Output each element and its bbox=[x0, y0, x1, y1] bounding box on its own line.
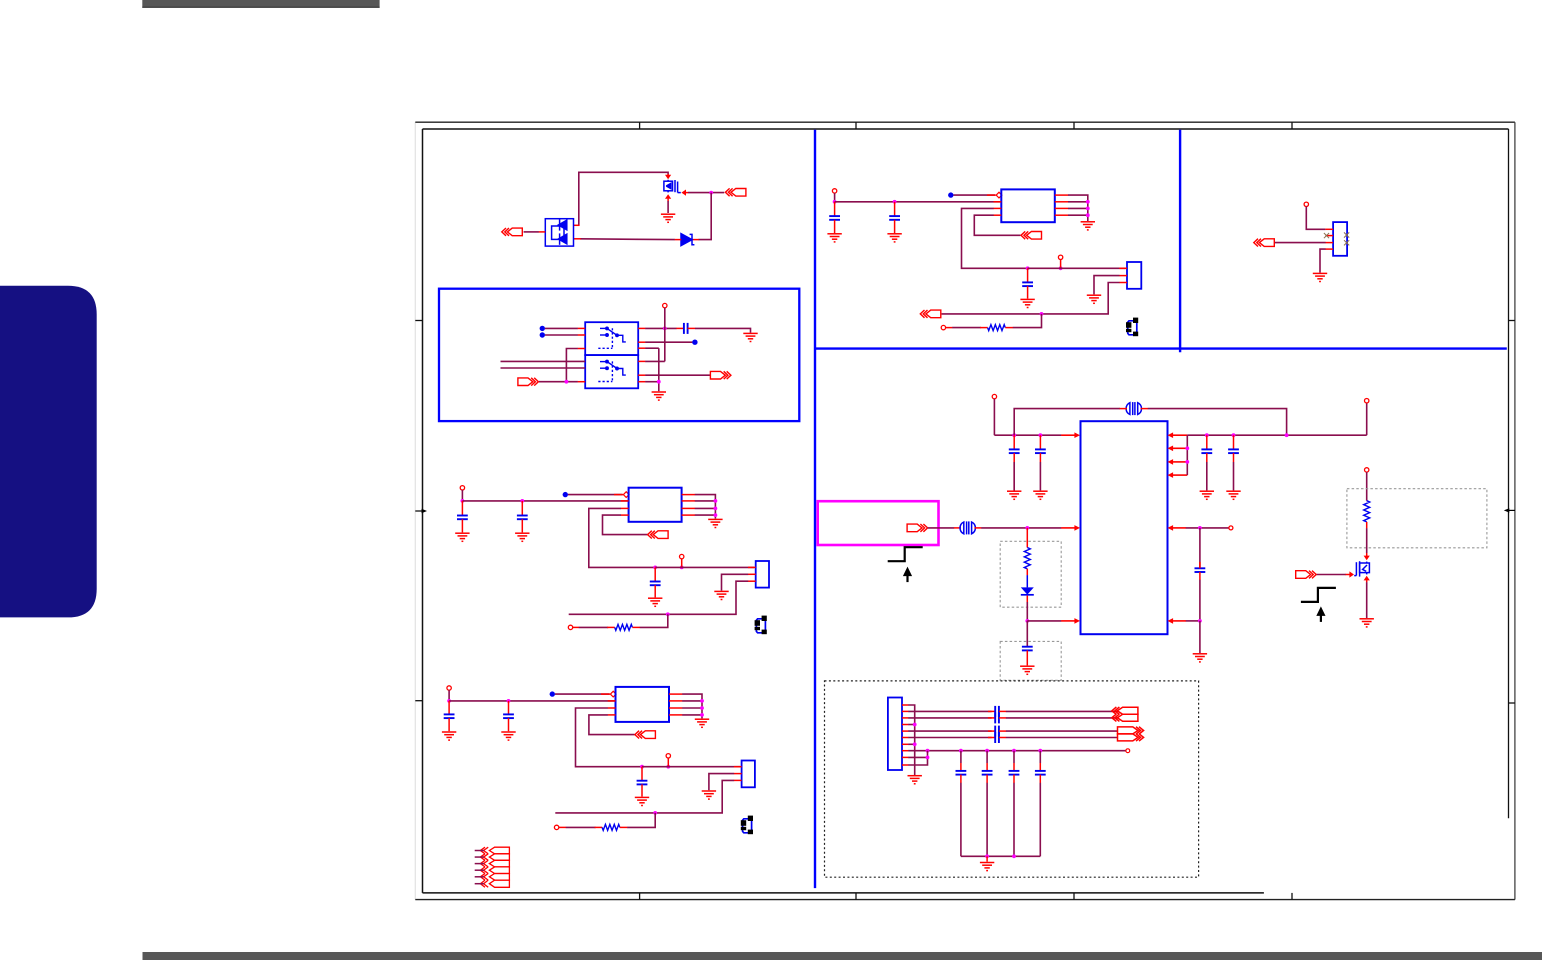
right center fold arrow bbox=[1504, 508, 1515, 512]
dual diode pack D1 right stub top bbox=[574, 224, 580, 226]
bypass cap1 upper wire (io) bbox=[960, 751, 962, 763]
connector stack J4 (6 pins) bbox=[480, 847, 509, 887]
no-connect x right 1 (tr) bbox=[1344, 232, 1349, 237]
cap C13 stub top (reg2) bbox=[448, 701, 450, 715]
row D series cap (io) bbox=[995, 732, 999, 743]
diode D2 schottky cathode stub bbox=[693, 239, 699, 241]
junction signal rail (reg2) bbox=[653, 811, 657, 815]
ladder junction r2 (main) bbox=[1185, 446, 1189, 450]
no-connect x right 2 (tr) bbox=[1344, 240, 1349, 245]
wire diode to row6 (main) bbox=[1026, 602, 1028, 621]
wire coupling to IC (main) bbox=[981, 527, 1061, 529]
row6 wire to IC (main) bbox=[1027, 620, 1061, 622]
transistor Q1 source arrow bbox=[665, 194, 671, 199]
dual connector AB left-pointing (io) bbox=[1112, 707, 1138, 721]
coupling symbol mid (main) bbox=[960, 521, 975, 534]
FET Q2 gate arrow (main) bbox=[1349, 571, 1354, 577]
connector EN (reg2) bbox=[635, 731, 656, 739]
cap C1 stub bottom (reg0) bbox=[834, 220, 836, 233]
ladder junction row3 (reg1) bbox=[714, 507, 718, 511]
dashed box resistor-diode (main) bbox=[1000, 541, 1061, 607]
resistor R6 stub (main) bbox=[1366, 522, 1368, 529]
U2B right pin 1 stub bbox=[638, 360, 645, 362]
wire diode to dual-diode pack bbox=[580, 238, 675, 241]
wire resistor to FET drain (main) bbox=[1366, 528, 1368, 553]
transistor Q1 P-MOSFET bbox=[664, 180, 681, 193]
ground under J2 pin2 (reg1) bbox=[714, 591, 728, 599]
ladder wire row3 (reg2) bbox=[682, 707, 702, 709]
bottom ruler tick x=639.6 bbox=[639, 893, 641, 900]
ground under C14 (reg2) bbox=[501, 732, 515, 740]
cap C11 (reg1) bbox=[517, 516, 528, 520]
wire U2A out1 to cap bbox=[645, 327, 676, 329]
transistor Q1 drain arrow bbox=[665, 175, 671, 180]
pin1 red stub (reg0) bbox=[987, 194, 996, 196]
ground under ladder (reg1) bbox=[708, 519, 722, 527]
series cap C5 bbox=[684, 323, 688, 334]
terminal circle above rail (reg2) bbox=[666, 754, 670, 758]
pin ladder vertical (main) bbox=[1186, 435, 1188, 475]
U5 right pin row5 arrow (main) bbox=[1168, 525, 1174, 531]
diode D3 lead (main) bbox=[1026, 575, 1028, 587]
ground under bus (io) bbox=[908, 776, 922, 784]
junction rowE cap2 (io) bbox=[985, 749, 989, 753]
right rail riser to terminal (main) bbox=[1366, 403, 1368, 435]
wire row6 down into box (main) bbox=[1026, 621, 1028, 647]
junction rail mid (reg2) bbox=[507, 699, 511, 703]
bypass cap4 lower wire (io) bbox=[1039, 783, 1041, 857]
junction railA r2 (main) bbox=[1232, 433, 1236, 437]
ladder junction row4 (reg1) bbox=[714, 513, 718, 517]
row D series cap right stub (io) bbox=[999, 737, 1006, 739]
J6 pin5 stub (io) bbox=[902, 730, 908, 732]
J2 pin2 stub (reg1) bbox=[748, 573, 756, 575]
junction at vertical B crossing bbox=[663, 327, 667, 331]
wire node into dashed box (main) bbox=[1026, 528, 1028, 548]
wire to resistor (reg2) bbox=[566, 826, 596, 828]
feedback rail junction 2 (reg2) bbox=[666, 765, 670, 769]
U5 right pin row6 arrow (main) bbox=[1168, 618, 1174, 624]
IC U4 box (reg2) bbox=[616, 687, 670, 722]
junction rail left (reg0) bbox=[833, 200, 837, 204]
junction row6 right (main) bbox=[1198, 619, 1202, 623]
J2 pin2 to ground (reg1) bbox=[722, 574, 749, 590]
outer border right bbox=[1514, 122, 1516, 899]
wire connector to D1 bbox=[524, 231, 539, 233]
diode D3 down (main) bbox=[1021, 587, 1034, 594]
IC U4 left pin2 stub (reg2) bbox=[608, 700, 616, 702]
FET Q2 drain arrow (main) bbox=[1364, 556, 1370, 561]
stub terminal to rail (reg2) bbox=[667, 758, 669, 767]
step symbol annotation 2 (main) bbox=[1301, 588, 1336, 602]
bypass cap1 lower wire (io) bbox=[960, 783, 962, 857]
IC U3 right pin2 stub (reg1) bbox=[682, 500, 695, 502]
wire terminal down to rail A (main) bbox=[993, 399, 995, 435]
J6 pin6 stub (io) bbox=[902, 737, 908, 739]
junction at gate node bbox=[709, 191, 713, 195]
FET Q2 source arrow (main) bbox=[1364, 576, 1370, 581]
resistor R3 right stub (reg1) bbox=[632, 626, 640, 628]
U2B left pin 3 stub bbox=[578, 381, 586, 383]
cap C20 (main) bbox=[1009, 449, 1020, 453]
wire pin4 to EN connector (reg1) bbox=[603, 515, 648, 535]
connector SELECT input bbox=[518, 378, 539, 386]
U2A right pin 3 stub bbox=[638, 347, 645, 349]
inner frame bottom (partial) bbox=[423, 892, 1264, 894]
row A series cap right stub (io) bbox=[999, 710, 1006, 712]
J6 pin10 stub (io) bbox=[902, 764, 908, 766]
IC U1 box (reg0) bbox=[1001, 189, 1055, 222]
junction signal (reg0) bbox=[1040, 312, 1044, 316]
IC U4 left pin4 stub (reg2) bbox=[608, 714, 616, 716]
wire from bus dot 1 to U2A pin 1 bbox=[545, 327, 578, 329]
right ruler tick y=703.0 bbox=[1509, 702, 1515, 704]
wire to resistor (reg1) bbox=[579, 626, 608, 628]
J1 pin1 stub (reg0) bbox=[1119, 267, 1127, 269]
row C series cap right stub (io) bbox=[999, 730, 1006, 732]
terminal circle left rail (main) bbox=[992, 394, 996, 398]
cap C13 stub bottom (reg2) bbox=[448, 718, 450, 731]
cap C20 stub (main) bbox=[1013, 435, 1015, 449]
IC U4 left pin3 stub (reg2) bbox=[608, 707, 616, 709]
wire terminal down to rail (reg1) bbox=[461, 490, 463, 501]
right pin ladder (reg1) bbox=[695, 495, 716, 519]
IC U3 left pin4 stub (reg1) bbox=[621, 514, 629, 516]
bus entry dot 1 bbox=[540, 326, 545, 331]
IC U4 right pin1 stub (reg2) bbox=[669, 693, 682, 695]
junction signal rail (reg1) bbox=[666, 612, 670, 616]
resistor R1 (reg0) bbox=[988, 325, 1006, 331]
terminal circle row E (io) bbox=[1126, 749, 1130, 753]
ground under C21 (main) bbox=[1033, 491, 1047, 499]
wire cap down to row6 (main) bbox=[1199, 580, 1201, 621]
terminal circle pull-up (main) bbox=[1365, 468, 1369, 472]
wire pin4 to EN connector (reg2) bbox=[589, 715, 635, 735]
ladder junction row2 (reg2) bbox=[700, 699, 704, 703]
top toolbar bar bbox=[142, 0, 379, 8]
row B wire left (io) bbox=[908, 717, 991, 719]
J6 pin2 stub (io) bbox=[902, 710, 908, 712]
connector box J2 (reg1) bbox=[756, 561, 769, 588]
IC U1 left pin4 stub (reg0) bbox=[994, 214, 1002, 216]
magenta highlight box bbox=[818, 501, 939, 545]
vertical rail B from terminal bbox=[664, 308, 666, 362]
terminal circle (tr) bbox=[1304, 202, 1308, 206]
wire resistor to rail (reg2) bbox=[627, 813, 655, 828]
ladder wire row4 (reg1) bbox=[695, 514, 716, 516]
bus entry dot 3 bbox=[692, 340, 697, 345]
connector box J5 (tr) bbox=[1333, 222, 1347, 256]
wire dot to IC pin1 (reg0) bbox=[954, 194, 996, 196]
terminal circle resistor (reg0) bbox=[941, 325, 945, 329]
IC U1 right pin4 stub (reg0) bbox=[1055, 214, 1068, 216]
pin1 red stub (reg2) bbox=[601, 693, 610, 695]
wire U2A pin3 to vertical link bbox=[566, 349, 577, 382]
series cap C5 right stub bbox=[688, 327, 696, 329]
ground under J3 pin2 (reg2) bbox=[702, 791, 716, 799]
wire U2B out1 to rail B bbox=[645, 360, 665, 362]
left ruler tick y=700.7 bbox=[415, 700, 422, 702]
battery icon (reg0) bbox=[1126, 318, 1138, 337]
J1 pin2 stub (reg0) bbox=[1119, 275, 1127, 277]
IC left pin row6 arrow (main) bbox=[1061, 620, 1075, 622]
bypass cap3 lower wire (io) bbox=[1013, 783, 1015, 857]
ladder junction row3 (reg2) bbox=[700, 706, 704, 710]
analog switch U2A internals bbox=[598, 327, 626, 348]
wire gate connector (main) bbox=[1316, 574, 1345, 576]
wire terminal into dashed box (main) bbox=[1366, 472, 1368, 501]
wire Q1 source to ground bbox=[667, 201, 669, 213]
IC U5 box (main) bbox=[1081, 421, 1168, 634]
bottom ruler tick x=1292.0 bbox=[1291, 893, 1293, 900]
wire source to ground (main) bbox=[1366, 582, 1368, 618]
junction railA r1 (main) bbox=[1205, 433, 1209, 437]
pin7 stub to gnd bus junction (io) bbox=[908, 743, 915, 745]
feedback rail junction 2 (reg1) bbox=[680, 566, 684, 570]
resistor R4 right stub (reg2) bbox=[620, 826, 628, 828]
pin1 red stub (reg1) bbox=[614, 494, 623, 496]
bypass cap3 upper wire (io) bbox=[1013, 751, 1015, 763]
IC U4 right pin4 stub (reg2) bbox=[669, 714, 682, 716]
inner frame top bbox=[423, 128, 1509, 130]
row B wire right (io) bbox=[1006, 717, 1118, 719]
connector gate drive (main) bbox=[1296, 571, 1317, 579]
wire U2B pin3 to ground rail bbox=[645, 381, 659, 383]
junction gnd bus 2 (io) bbox=[1012, 854, 1016, 858]
inner frame right (partial) bbox=[1508, 129, 1510, 818]
resistor R1 right stub (reg0) bbox=[1005, 327, 1013, 329]
feedback rail to conn box (reg2) bbox=[642, 766, 740, 768]
bypass cap3 lower stub (io) bbox=[1013, 775, 1015, 783]
resistor R4 (reg2) bbox=[602, 824, 620, 830]
terminal V+ circle (reg0) bbox=[832, 189, 836, 193]
junction select node bbox=[565, 380, 569, 384]
dual diode pack D1 bbox=[545, 219, 573, 246]
junction railA c1 (main) bbox=[1012, 433, 1016, 437]
J6 pin8 stub (io) bbox=[902, 750, 908, 752]
coupling stub left (main) bbox=[1120, 408, 1127, 410]
wire dot to IC pin1 (reg2) bbox=[555, 693, 609, 695]
ladder junction row3 (reg0) bbox=[1086, 207, 1090, 211]
cap C24 (main) bbox=[1022, 647, 1033, 651]
wire to resistor (reg0) bbox=[952, 327, 981, 329]
top ruler tick x=639.6 bbox=[639, 122, 641, 129]
ground in dashed box (main) bbox=[1020, 666, 1034, 674]
battery icon (reg1) bbox=[755, 616, 767, 635]
J3 pin2 stub (reg2) bbox=[734, 773, 742, 775]
ground under C15 (reg2) bbox=[635, 797, 649, 805]
bus entry dot (reg1) bbox=[563, 492, 568, 497]
dual diode pack D1 left stub bbox=[539, 231, 546, 233]
J5 pin3 stub (tr) bbox=[1325, 242, 1333, 244]
ladder junction r3 (main) bbox=[1185, 460, 1189, 464]
large dashed box (io) bbox=[825, 681, 1199, 877]
row B series cap left stub (io) bbox=[988, 717, 995, 719]
connector box J3 (reg2) bbox=[742, 761, 755, 788]
transistor Q1 gate arrow bbox=[681, 190, 686, 196]
ground under J5 (tr) bbox=[1313, 273, 1327, 281]
coupling stub right (main) bbox=[1141, 408, 1148, 410]
cap C22 lower wire (main) bbox=[1206, 453, 1208, 462]
wire terminal down (reg0) bbox=[834, 193, 836, 202]
IC left pin row5 arrow (main) bbox=[1061, 527, 1075, 529]
terminal circle resistor (reg1) bbox=[568, 625, 572, 629]
cap C3 wire down (reg0) bbox=[1027, 268, 1029, 282]
wire resistor to junction (reg0) bbox=[1013, 314, 1042, 328]
ground under bus bottom (io) bbox=[980, 863, 994, 871]
junction rail left (reg2) bbox=[447, 699, 451, 703]
J2 pin3 wire down-left (reg1) bbox=[668, 581, 748, 614]
junction rail mid (reg1) bbox=[520, 499, 524, 503]
wire node down to diode bbox=[699, 193, 712, 240]
inner frame left bbox=[422, 129, 424, 893]
cap C12 stub bottom (reg1) bbox=[654, 585, 656, 597]
wire down to ground right (main) bbox=[1199, 621, 1201, 653]
junction rowE cap4 (io) bbox=[1038, 749, 1042, 753]
U2A left pin 2 stub bbox=[578, 334, 586, 336]
terminal V+ circle (reg2) bbox=[447, 686, 451, 690]
ground below rail A bbox=[652, 392, 666, 400]
analog switch U2B internals bbox=[598, 360, 626, 381]
U2A right pin 1 stub bbox=[638, 327, 645, 329]
wire pin3 feedback down (reg0) bbox=[962, 208, 1028, 268]
cap C3 stub bottom (reg0) bbox=[1027, 286, 1029, 299]
terminal circle right rail (main) bbox=[1365, 399, 1369, 403]
wire top loop of charge circuit bbox=[579, 172, 668, 225]
bus entry dot (reg0) bbox=[948, 192, 953, 197]
bus entry dot 2 bbox=[540, 332, 545, 337]
ladder wire row2 (reg1) bbox=[695, 500, 716, 502]
top ruler tick x=1292.0 bbox=[1291, 122, 1293, 129]
blue highlight box around switch circuit bbox=[439, 289, 799, 421]
resistor R4 left stub (reg2) bbox=[595, 826, 603, 828]
power rail (reg0) bbox=[835, 201, 1002, 203]
J6 pin4 stub (io) bbox=[902, 724, 908, 726]
wire from bus dot 2 to U2A pin 2 bbox=[545, 334, 578, 336]
IC U3 right pin3 stub (reg1) bbox=[682, 507, 695, 509]
cap C20 lower wire (main) bbox=[1013, 453, 1015, 490]
U2A right pin 2 stub bbox=[638, 341, 645, 343]
analog switch U2B box bbox=[585, 355, 638, 388]
ground under C12 (reg1) bbox=[648, 598, 662, 606]
ground under C13 (reg2) bbox=[442, 732, 456, 740]
cap C14 (reg2) bbox=[503, 714, 514, 718]
cap C10 stub bottom (reg1) bbox=[461, 519, 463, 532]
bottom status bar bbox=[143, 952, 1542, 960]
rail A right segment (main) bbox=[1187, 434, 1366, 436]
IC U1 left pin2 stub (reg0) bbox=[994, 201, 1002, 203]
J1 pin3 stub (reg0) bbox=[1119, 282, 1127, 284]
up arrow annotation 2 (main) bbox=[1316, 606, 1325, 622]
blue section divider vertical main x=815 bbox=[814, 130, 816, 888]
terminal circle row5 (main) bbox=[1229, 526, 1233, 530]
diode D2 schottky bbox=[681, 234, 694, 246]
step symbol annotation 1 (main) bbox=[888, 547, 923, 561]
cap C1 (reg0) bbox=[829, 216, 840, 220]
junction rowE cap3 (io) bbox=[1012, 749, 1016, 753]
row A wire left (io) bbox=[908, 710, 991, 712]
IC U1 right pin2 stub (reg0) bbox=[1055, 201, 1068, 203]
junction rowE pin9 riser (io) bbox=[926, 749, 930, 753]
left navy side tab bbox=[0, 286, 97, 618]
ground under ladder (reg2) bbox=[695, 719, 709, 727]
J6 pin3 stub (io) bbox=[902, 717, 908, 719]
dual connector CD right-pointing (io) bbox=[1118, 727, 1144, 741]
feedback rail to conn box (reg1) bbox=[655, 566, 754, 568]
J5 pin4 to ground (tr) bbox=[1320, 249, 1326, 273]
blue section divider vertical x=1180 bbox=[1179, 130, 1181, 352]
terminal circle above rail (reg0) bbox=[1058, 255, 1062, 259]
IC U1 right pin1 stub (reg0) bbox=[1055, 194, 1068, 196]
U2B left pin 1 long wire bbox=[501, 360, 586, 362]
junction gnd bus 1 (io) bbox=[985, 854, 989, 858]
ladder wire row3 (reg1) bbox=[695, 507, 716, 509]
coupling symbol top (main) bbox=[1126, 402, 1141, 415]
terminal circle resistor (reg2) bbox=[554, 825, 558, 829]
IC pin stub left top with arrow (main) bbox=[1061, 434, 1075, 436]
bypass cap4 lower stub (io) bbox=[1039, 775, 1041, 783]
connector SENSE (reg0) bbox=[920, 310, 941, 318]
ladder wire row4 (reg0) bbox=[1068, 214, 1088, 216]
bypass cap1 lower stub (io) bbox=[960, 775, 962, 783]
power rail (reg2) bbox=[449, 700, 615, 702]
feedback rail junction 1 (reg0) bbox=[1026, 266, 1030, 270]
IC U3 left pin3 stub (reg1) bbox=[621, 507, 629, 509]
no-connect x pin2 (tr) bbox=[1324, 233, 1329, 238]
diode D2 anode stub bbox=[675, 239, 682, 241]
J2 pin1 stub (reg1) bbox=[748, 566, 756, 568]
cap C11 stub top (reg1) bbox=[521, 501, 523, 516]
bypass cap2 lower wire (io) bbox=[986, 783, 988, 857]
resistor R3 left stub (reg1) bbox=[607, 626, 615, 628]
signal rail left (reg2) bbox=[555, 812, 655, 814]
ground under C11 (reg1) bbox=[515, 533, 529, 541]
junction rail left (reg1) bbox=[461, 499, 465, 503]
IC U1 right pin3 stub (reg0) bbox=[1055, 207, 1068, 209]
terminal V+ circle (reg1) bbox=[460, 486, 464, 490]
row B series cap (io) bbox=[995, 712, 999, 723]
row C wire right (io) bbox=[1006, 730, 1118, 732]
bypass cap4 upper wire (io) bbox=[1039, 751, 1041, 763]
connector PWR_SW input bbox=[725, 188, 746, 196]
row A series cap (io) bbox=[995, 706, 999, 717]
J5 pin2 stub (tr) bbox=[1325, 235, 1333, 237]
resistor R1 left stub (reg0) bbox=[980, 327, 988, 329]
wire Q1 gate to node bbox=[688, 192, 724, 194]
ground under ladder (reg0) bbox=[1081, 222, 1095, 230]
pin9 stub wire (io) bbox=[908, 756, 927, 758]
junction railA r3 (main) bbox=[1285, 433, 1289, 437]
power rail (reg1) bbox=[462, 500, 628, 502]
wire connector to coupling (main) bbox=[928, 527, 954, 529]
cap C22 stub (main) bbox=[1206, 435, 1208, 449]
cap C24 stub bottom (main) bbox=[1026, 650, 1028, 665]
wire select connector to U2B pin3 bbox=[539, 381, 578, 383]
bypass cap1 (io) bbox=[956, 771, 967, 775]
resistor R5 stub bottom (main) bbox=[1026, 569, 1028, 576]
row A series cap left stub (io) bbox=[988, 710, 995, 712]
dual diode pack D1 right stub bottom bbox=[574, 238, 581, 240]
cap C11 stub bottom (reg1) bbox=[521, 519, 523, 532]
J1 pin3 wire down-left (reg0) bbox=[1042, 283, 1120, 314]
stub terminal to rail (reg0) bbox=[1060, 260, 1062, 269]
IC U3 box (reg1) bbox=[629, 488, 682, 522]
row D series cap left stub (io) bbox=[988, 737, 995, 739]
blue section divider horizontal y=348.5 bbox=[815, 347, 1507, 349]
wire cap to ground corner bbox=[695, 328, 751, 332]
cap C3 (reg0) bbox=[1022, 282, 1033, 286]
signal wire from connector (reg0) bbox=[942, 313, 1042, 315]
